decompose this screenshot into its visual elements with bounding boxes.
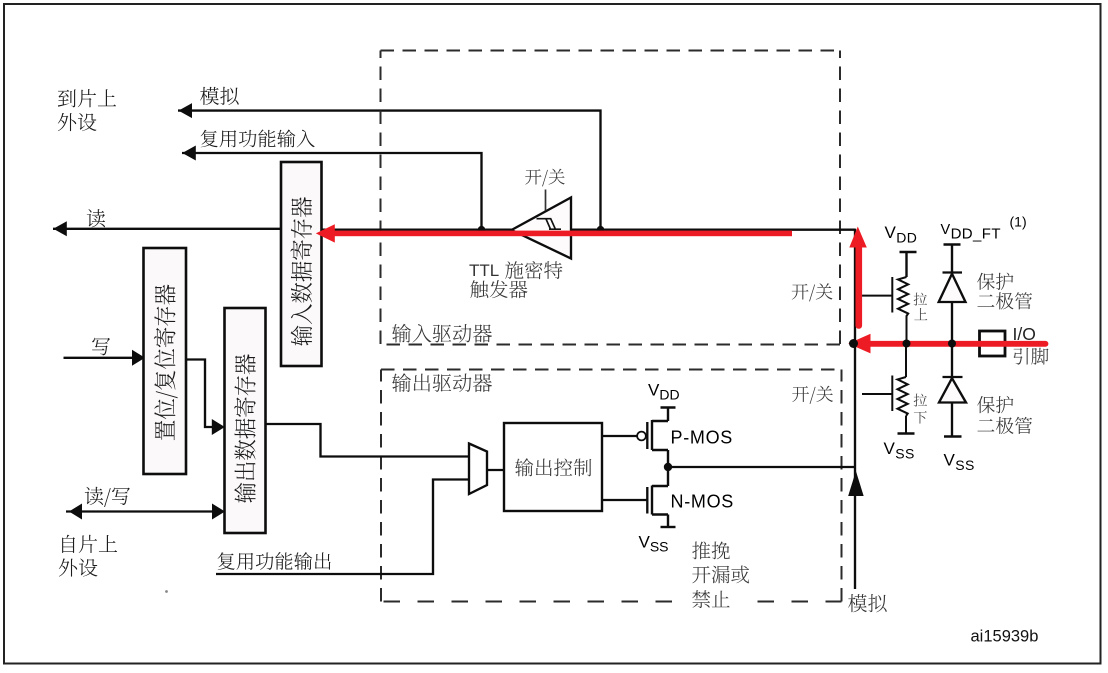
red arrow: vertical up from IO node	[849, 227, 867, 326]
node: MOS drain junction	[664, 463, 672, 471]
wire: main vertical line	[854, 229, 856, 589]
arrowhead: analog up from below	[848, 471, 864, 496]
label: 保护二极管 (upper) line2	[977, 292, 1032, 309]
red arrow: from IO pin to node	[848, 334, 1045, 354]
svg-text:N-MOS: N-MOS	[671, 492, 735, 512]
node: IO junction	[849, 339, 858, 348]
label: 模拟 (top)	[200, 87, 239, 105]
wire: schmitt trigger line	[322, 229, 856, 231]
transistor Q1 P-MOS	[602, 420, 668, 463]
label: 保护二极管 (lower) line2	[977, 417, 1032, 434]
label: 开漏或	[692, 565, 749, 583]
label: 开/关 (pull-up)	[792, 283, 833, 301]
wire: output data register to mux	[266, 424, 470, 457]
register box: output data register	[225, 308, 266, 533]
wire: mux to output control	[487, 469, 504, 471]
wire: set/reset to output data register	[186, 360, 217, 428]
dashed box: output driver	[381, 370, 842, 602]
power: VDD bar (pull-up)	[900, 252, 917, 277]
label: 到片上外设 line2	[58, 113, 97, 131]
schmitt trigger U1	[512, 198, 572, 259]
stray dot	[165, 590, 168, 593]
label: 复用功能输出	[218, 552, 331, 570]
label: 输出数据寄存器 (rotated)	[234, 354, 256, 503]
label: 置位/复位寄存器 (rotated)	[154, 285, 178, 441]
wire: analog output line to peripherals	[178, 111, 601, 230]
wire: read/write line	[66, 510, 220, 512]
arrowhead: read/write right	[212, 504, 225, 520]
wire: on/off lead to schmitt	[545, 190, 547, 211]
wire: read line	[53, 228, 282, 230]
label: 开/关 (output driver)	[792, 386, 833, 404]
label: 自片上外设 line2	[59, 558, 98, 576]
arrowhead: alternate function input	[182, 146, 196, 161]
svg-text:P-MOS: P-MOS	[671, 428, 734, 448]
label: 保护二极管 (lower) line1	[977, 396, 1013, 413]
arrowhead: analog to peripherals	[179, 103, 193, 118]
label: 开/关 (schmitt)	[525, 169, 565, 187]
wire: alternate function input line	[182, 153, 482, 230]
svg-text:I/O: I/O	[1013, 324, 1036, 344]
register box: set/reset register	[144, 248, 187, 474]
label: 到片上外设 line1	[58, 89, 116, 107]
svg-text:ai15939b: ai15939b	[971, 628, 1039, 646]
node: pull-up junction	[903, 340, 911, 348]
red arrow: analog path to input register	[316, 224, 792, 242]
label: 保护二极管 (upper) line1	[977, 273, 1013, 290]
mux	[469, 444, 487, 495]
arrowhead: read line	[53, 221, 67, 236]
label: 复用功能输入	[201, 129, 315, 147]
wire: IO horizontal line	[855, 342, 979, 344]
power: VSS bar (lower diode)	[944, 435, 962, 437]
label: 输入驱动器	[392, 324, 492, 343]
label: 输出控制	[515, 458, 591, 476]
register box: input data register	[281, 162, 322, 366]
resistor: pull-up	[862, 277, 908, 344]
node: upper diode junction	[948, 340, 956, 348]
wire: AF output to mux	[216, 480, 469, 575]
IO pin square	[980, 331, 1006, 356]
svg-text:(1): (1)	[1010, 214, 1027, 230]
arrowhead: read/write left	[69, 504, 82, 520]
diode D2 (to VSS)	[939, 344, 966, 437]
node: analog junction	[597, 226, 605, 234]
label: 读	[87, 209, 105, 227]
arrowhead: write line into set/reset register	[132, 350, 145, 366]
label: 禁止	[686, 593, 743, 610]
resistor: pull-down	[862, 344, 908, 434]
label: 拉下 (vertical)	[914, 394, 927, 407]
dashed box: input driver	[381, 51, 841, 345]
label: 拉上 (vertical)	[914, 293, 927, 306]
power: VDD bar (P-MOS)	[661, 408, 676, 422]
wire: MOS output line	[668, 466, 855, 468]
svg-text:TTL: TTL	[469, 261, 499, 280]
diode D1 (to VDD_FT)	[939, 273, 966, 344]
label: 输入数据寄存器 (rotated)	[290, 197, 312, 346]
label: TTL 施密特 line2	[470, 280, 527, 298]
label: 模拟 (bottom)	[848, 594, 887, 612]
transistor Q2 N-MOS	[602, 471, 668, 527]
power: VSS bar (pull-down)	[898, 432, 915, 434]
power: VSS bar (N-MOS)	[661, 526, 676, 528]
label: 输出驱动器	[392, 373, 492, 392]
label: 推挽	[692, 541, 730, 559]
power: VDD_FT bar	[944, 245, 961, 273]
label: 引脚	[1013, 348, 1048, 365]
arrowhead: into output data register	[212, 419, 225, 435]
label: 写	[92, 338, 110, 356]
box: output control	[504, 423, 602, 511]
label: 读/写	[85, 487, 130, 507]
wire: write line	[64, 357, 139, 359]
node: AF input junction	[478, 226, 486, 234]
label: 自片上外设 line1	[62, 535, 117, 553]
